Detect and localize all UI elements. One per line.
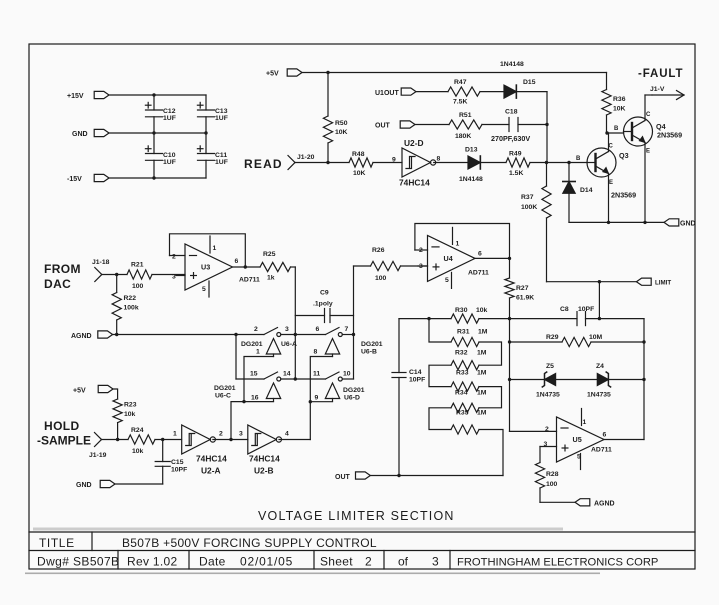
resistor R21: [127, 262, 185, 291]
svg-text:E: E: [609, 180, 613, 186]
svg-text:74HC14: 74HC14: [249, 454, 280, 464]
svg-text:180K: 180K: [455, 133, 471, 140]
capacitor C12: [145, 95, 175, 133]
arrow J1-V: [650, 86, 684, 100]
wire OUT-R51: [415, 124, 449, 126]
switch U6-C: [214, 371, 291, 402]
svg-text:3: 3: [432, 555, 439, 569]
wire OUT row: [370, 475, 503, 477]
node C18/D15: [545, 123, 548, 126]
svg-text:D15: D15: [523, 79, 536, 86]
inverter U2-D: [392, 138, 441, 188]
svg-text:R30: R30: [455, 307, 468, 314]
resistor R26: [354, 247, 428, 282]
wire R34-R35 left: [429, 408, 451, 430]
node U3out/fb: [244, 265, 247, 268]
connector U1OUT: [375, 88, 416, 97]
svg-text:R47: R47: [454, 79, 467, 86]
wire U3 pin3: [176, 275, 185, 277]
op-amp U5: [544, 409, 613, 470]
wire D15 out: [516, 92, 547, 125]
svg-text:11: 11: [313, 371, 320, 378]
svg-text:10k: 10k: [476, 307, 488, 314]
svg-text:1M: 1M: [477, 410, 487, 417]
svg-text:D13: D13: [465, 147, 478, 154]
resistor R24: [128, 427, 182, 455]
wire +5V rail: [302, 72, 607, 74]
node pin14/bus1: [294, 377, 297, 380]
resistor R47: [448, 79, 504, 106]
title block row1 text: [39, 536, 377, 550]
svg-text:D14: D14: [580, 187, 593, 194]
svg-text:1M: 1M: [477, 390, 487, 397]
node +15V/C12: [152, 93, 155, 96]
svg-text:U3: U3: [201, 263, 210, 272]
svg-text:R34: R34: [455, 390, 468, 397]
node AGND/R22: [115, 333, 118, 336]
svg-text:+15V: +15V: [67, 93, 84, 100]
wire U4 out: [475, 257, 510, 259]
connector +5V top: [266, 69, 302, 78]
zener Z5: [536, 363, 560, 399]
svg-text:1N4148: 1N4148: [500, 61, 524, 68]
svg-text:Dwg# SB507B: Dwg# SB507B: [37, 555, 119, 569]
svg-text:U4: U4: [444, 254, 453, 263]
svg-text:9: 9: [315, 395, 319, 402]
svg-text:U6-B: U6-B: [361, 349, 377, 356]
svg-text:3: 3: [172, 274, 176, 281]
svg-text:R36: R36: [613, 96, 626, 103]
capacitor C15: [155, 440, 187, 485]
wire Q3 emitter: [608, 174, 610, 223]
svg-text:100: 100: [132, 283, 144, 290]
node C15/row: [161, 438, 164, 441]
svg-text:B507B +500V FORCING SUPPLY CON: B507B +500V FORCING SUPPLY CONTROL: [122, 536, 377, 550]
label FROM DAC: [44, 262, 81, 291]
svg-text:16: 16: [251, 395, 259, 402]
svg-text:10PF: 10PF: [171, 467, 187, 474]
svg-text:C15: C15: [171, 459, 184, 466]
switch U6-A: [241, 326, 297, 357]
svg-text:C8: C8: [560, 306, 569, 313]
wire Z5-Z4: [556, 379, 598, 381]
wire -15V rail: [109, 177, 206, 179]
wire AGND row: [113, 334, 264, 336]
svg-text:OUT: OUT: [375, 123, 391, 130]
wire R31-R32 right: [479, 342, 502, 365]
connector +15V: [67, 91, 109, 100]
wire pin15 row: [236, 378, 264, 380]
resistor R50: [323, 73, 347, 163]
wire U4 feedback: [415, 224, 510, 259]
pin J1-19: [89, 433, 107, 460]
connector GND: [72, 129, 109, 138]
switch U6-D: [313, 371, 365, 402]
wire U2B out: [279, 439, 310, 441]
wire U2A out: [213, 439, 248, 441]
node Q3e/GND: [607, 221, 610, 224]
wire R35 right down: [479, 430, 503, 476]
svg-text:7.5K: 7.5K: [453, 99, 467, 106]
diode D13: [459, 147, 483, 184]
node R29/rightbus: [642, 340, 645, 343]
wire Z row right: [608, 379, 644, 381]
svg-text:J1-20: J1-20: [297, 154, 315, 161]
svg-text:B: B: [614, 126, 619, 132]
svg-text:R22: R22: [124, 295, 137, 302]
svg-text:GND: GND: [76, 482, 92, 489]
svg-text:U6-A: U6-A: [281, 341, 297, 348]
svg-text:Q3: Q3: [619, 151, 629, 160]
svg-text:DG201: DG201: [214, 385, 236, 392]
resistor R31: [451, 329, 488, 347]
svg-text:U6-D: U6-D: [344, 395, 360, 402]
capacitor C13: [197, 95, 227, 133]
svg-text:100: 100: [546, 481, 558, 488]
svg-text:HOLD: HOLD: [44, 419, 80, 433]
wire R29 row: [510, 341, 563, 343]
node Z4/rightbus: [642, 378, 645, 381]
svg-text:6: 6: [603, 432, 607, 439]
svg-text:R31: R31: [457, 329, 470, 336]
svg-text:1UF: 1UF: [163, 159, 176, 166]
wire U6A out: [281, 334, 326, 336]
node GND/C12: [152, 131, 155, 134]
resistor R22: [112, 275, 139, 335]
zener Z4: [587, 363, 611, 399]
svg-text:R33: R33: [456, 370, 469, 377]
svg-text:5: 5: [577, 454, 581, 461]
resistor R23: [113, 389, 137, 440]
wire +15V rail: [109, 94, 206, 96]
node LIMIT/C8: [598, 280, 601, 283]
svg-text:1: 1: [173, 431, 177, 438]
node pin3/bus1: [294, 333, 297, 336]
svg-text:DG201: DG201: [241, 341, 263, 348]
node R21/R22: [115, 273, 118, 276]
node pin7/bus2: [352, 333, 355, 336]
label -FAULT: [638, 68, 683, 80]
svg-text:10: 10: [343, 371, 351, 378]
svg-text:10K: 10K: [613, 106, 626, 113]
label 1N4148 D15: [500, 61, 524, 68]
wire U5 pin3: [540, 446, 557, 448]
wire J1-19 row: [102, 439, 129, 441]
svg-text:1M: 1M: [478, 329, 488, 336]
svg-text:U2-A: U2-A: [201, 466, 221, 476]
svg-text:1: 1: [256, 349, 260, 356]
inverter U2-B: [239, 425, 289, 476]
svg-text:1N4148: 1N4148: [459, 176, 483, 183]
resistor R48: [349, 151, 402, 177]
svg-text:8: 8: [314, 349, 318, 356]
svg-text:6: 6: [478, 251, 482, 258]
wire bus3 down: [509, 319, 511, 432]
node -15V/C10: [152, 176, 155, 179]
svg-text:10k: 10k: [124, 411, 136, 418]
svg-text:Sheet: Sheet: [320, 555, 353, 569]
node R30/R31: [427, 317, 430, 320]
svg-text:AD711: AD711: [591, 447, 612, 454]
svg-text:E: E: [646, 149, 650, 155]
connector AGND right: [575, 499, 615, 508]
pin J1-18: [92, 259, 110, 282]
svg-text:02/01/05: 02/01/05: [240, 555, 293, 569]
svg-text:1N4735: 1N4735: [536, 392, 560, 399]
resistor R32: [451, 350, 487, 370]
svg-text:R35: R35: [456, 410, 469, 417]
svg-text:R23: R23: [124, 402, 137, 409]
diode D14: [563, 163, 593, 223]
connector AGND left: [71, 331, 113, 340]
node R49/D14: [567, 161, 570, 164]
node R27/C8row: [508, 317, 511, 320]
wire U3 feedback: [170, 234, 246, 267]
node C8/LIMIT: [598, 317, 601, 320]
svg-text:1: 1: [456, 241, 460, 248]
title block grid: [29, 532, 695, 569]
svg-text:R24: R24: [131, 427, 144, 434]
wire U6C out: [281, 378, 326, 380]
svg-text:Date: Date: [199, 555, 226, 569]
scan streak lower: [25, 573, 600, 575]
node U4out/R27: [508, 257, 511, 260]
wire GND row right: [569, 221, 664, 223]
svg-text:VOLTAGE LIMITER SECTION: VOLTAGE LIMITER SECTION: [258, 509, 455, 523]
svg-text:2: 2: [365, 555, 372, 569]
svg-text:DG201: DG201: [361, 341, 383, 348]
wire U6D out: [342, 378, 353, 380]
node bus3/Zrow: [508, 378, 511, 381]
svg-text:10K: 10K: [353, 170, 366, 177]
switch U6-B: [314, 326, 383, 357]
wire Z row left: [510, 379, 545, 381]
svg-text:2: 2: [545, 426, 549, 433]
wire R32-R33 left: [429, 365, 451, 386]
svg-text:1k: 1k: [267, 275, 275, 282]
svg-text:B: B: [576, 156, 581, 162]
svg-text:AD711: AD711: [239, 277, 260, 284]
svg-text:Z5: Z5: [546, 363, 554, 370]
wire U3 out: [233, 266, 261, 268]
label READ: [244, 157, 283, 171]
resistor R35: [451, 410, 487, 435]
node control BD: [309, 400, 312, 403]
wire C18 node down: [546, 125, 548, 163]
wire U5 pin2: [510, 430, 557, 432]
node OUT/C14: [397, 474, 400, 477]
svg-text:J1-19: J1-19: [89, 452, 107, 459]
svg-text:1UF: 1UF: [215, 159, 228, 166]
svg-text:C10: C10: [163, 152, 176, 159]
svg-text:U6-C: U6-C: [215, 393, 231, 400]
node AGND/bus: [234, 333, 237, 336]
node bus3/R29: [508, 340, 511, 343]
svg-text:270PF,630V: 270PF,630V: [491, 134, 530, 143]
svg-text:2: 2: [172, 254, 176, 261]
svg-text:Rev 1.02: Rev 1.02: [127, 555, 177, 569]
svg-text:U2-D: U2-D: [404, 138, 424, 148]
transistor Q3: [576, 144, 636, 200]
svg-text:14: 14: [283, 371, 291, 378]
svg-text:of: of: [398, 555, 409, 569]
svg-text:6: 6: [235, 258, 239, 265]
label VOLTAGE LIMITER SECTION: [258, 509, 455, 523]
title block row2 text: [37, 555, 658, 569]
wire U4 pin3: [418, 265, 428, 267]
svg-text:1: 1: [583, 419, 587, 426]
wire Q4 emitter: [644, 143, 646, 223]
svg-text:5: 5: [445, 277, 449, 284]
connector GND bottom: [76, 480, 115, 489]
scan streak upper: [33, 528, 563, 531]
svg-text:.1poly: .1poly: [313, 301, 333, 308]
node U2Aout: [229, 438, 232, 441]
svg-text:4: 4: [285, 431, 289, 438]
connector -15V: [67, 174, 109, 183]
svg-text:DG201: DG201: [343, 387, 365, 394]
svg-text:+5V: +5V: [73, 388, 86, 395]
svg-text:1.5K: 1.5K: [509, 170, 523, 177]
svg-text:R28: R28: [546, 471, 559, 478]
svg-text:AGND: AGND: [71, 333, 92, 340]
wire R33-R34 right: [479, 387, 502, 408]
svg-text:2N3569: 2N3569: [657, 131, 682, 140]
svg-text:C14: C14: [409, 369, 422, 376]
svg-text:C9: C9: [320, 290, 329, 297]
svg-text:READ: READ: [244, 157, 283, 171]
wire Q3 collector: [608, 133, 610, 152]
wire READ row: [295, 162, 349, 164]
resistor R36: [602, 73, 626, 134]
resistor R33: [451, 370, 487, 392]
svg-text:C: C: [609, 144, 614, 150]
resistor R28: [535, 447, 558, 503]
svg-text:GND: GND: [680, 221, 696, 228]
svg-text:R21: R21: [131, 262, 144, 269]
capacitor C8: [560, 306, 644, 326]
op-amp U4: [419, 227, 489, 288]
svg-text:U2-B: U2-B: [254, 466, 274, 476]
svg-text:R37: R37: [521, 194, 534, 201]
svg-text:J1-18: J1-18: [92, 259, 110, 266]
wire C14 column: [398, 319, 400, 476]
svg-text:R49: R49: [509, 151, 522, 158]
svg-text:2: 2: [219, 431, 223, 438]
svg-text:+5V: +5V: [266, 71, 279, 78]
svg-text:FROM: FROM: [44, 262, 81, 276]
svg-text:6: 6: [316, 326, 320, 333]
svg-text:DAC: DAC: [44, 277, 71, 291]
inverter U2-A: [173, 425, 227, 476]
svg-text:R50: R50: [335, 120, 348, 127]
wire bus R26 down: [353, 266, 355, 379]
wire right bus: [643, 319, 645, 440]
svg-text:-FAULT: -FAULT: [638, 68, 683, 80]
svg-text:C18: C18: [505, 109, 518, 116]
svg-text:C: C: [646, 112, 651, 118]
resistor R51: [449, 112, 509, 140]
pin J1-20: [288, 154, 315, 170]
svg-text:R32: R32: [455, 350, 468, 357]
svg-text:10M: 10M: [589, 334, 603, 341]
svg-text:C13: C13: [215, 108, 228, 115]
node control AC: [242, 400, 245, 403]
svg-text:100k: 100k: [124, 305, 139, 312]
svg-text:AGND: AGND: [594, 501, 615, 508]
svg-text:15: 15: [250, 371, 258, 378]
wire U6A/U6C control: [231, 357, 274, 440]
svg-text:TITLE: TITLE: [39, 536, 75, 550]
wire C15-GND: [115, 483, 163, 485]
connector +5V bottom: [73, 385, 113, 394]
svg-text:R26: R26: [372, 247, 385, 254]
svg-text:5: 5: [202, 286, 206, 293]
svg-text:U1OUT: U1OUT: [375, 90, 399, 97]
transistor Q4: [614, 112, 682, 155]
svg-text:10K: 10K: [335, 129, 348, 136]
wire bus R25 down: [294, 267, 296, 379]
svg-text:U5: U5: [573, 435, 582, 444]
svg-text:R48: R48: [352, 151, 365, 158]
svg-text:1: 1: [213, 245, 217, 252]
op-amp U3: [172, 236, 260, 297]
node R49/R37: [545, 161, 548, 164]
wire Q4 collector: [645, 95, 652, 121]
wire left bus down: [235, 335, 237, 380]
resistor R34: [451, 390, 487, 413]
resistor R25: [260, 251, 295, 282]
svg-text:J1-V: J1-V: [650, 86, 665, 93]
wire U1OUT-R47: [416, 91, 448, 93]
wire U2-D out: [434, 162, 468, 164]
svg-text:1UF: 1UF: [215, 115, 228, 122]
svg-text:1M: 1M: [477, 370, 487, 377]
connector OUT top: [375, 121, 415, 130]
svg-text:1M: 1M: [477, 350, 487, 357]
resistor R27: [505, 258, 534, 318]
wire U6B out: [342, 334, 353, 336]
resistor R37: [521, 163, 551, 282]
svg-text:C11: C11: [215, 152, 227, 159]
svg-text:8: 8: [437, 156, 441, 163]
svg-text:100: 100: [375, 275, 387, 282]
svg-text:-SAMPLE: -SAMPLE: [37, 434, 91, 448]
svg-text:74HC14: 74HC14: [399, 178, 430, 188]
resistor R30: [451, 307, 510, 323]
svg-text:GND: GND: [72, 131, 88, 138]
svg-text:10PF: 10PF: [409, 377, 425, 384]
node Q4e/GND: [643, 221, 646, 224]
resistor R29: [546, 334, 644, 347]
capacitor C10: [145, 133, 175, 178]
connector LIMIT: [636, 278, 671, 286]
node R23/row: [116, 438, 119, 441]
svg-text:2: 2: [254, 326, 258, 333]
label HOLD: [37, 419, 91, 448]
connector GND right: [664, 219, 696, 228]
svg-text:100K: 100K: [521, 204, 537, 211]
node R50/READ: [326, 161, 329, 164]
node R36/Q4 base: [605, 131, 608, 134]
svg-text:R25: R25: [263, 251, 276, 258]
svg-text:1UF: 1UF: [163, 115, 176, 122]
wire Q4 base: [607, 132, 624, 134]
capacitor C14: [392, 369, 425, 384]
svg-text:C12: C12: [163, 108, 176, 115]
svg-text:3: 3: [285, 326, 289, 333]
svg-text:10PF: 10PF: [578, 306, 594, 313]
